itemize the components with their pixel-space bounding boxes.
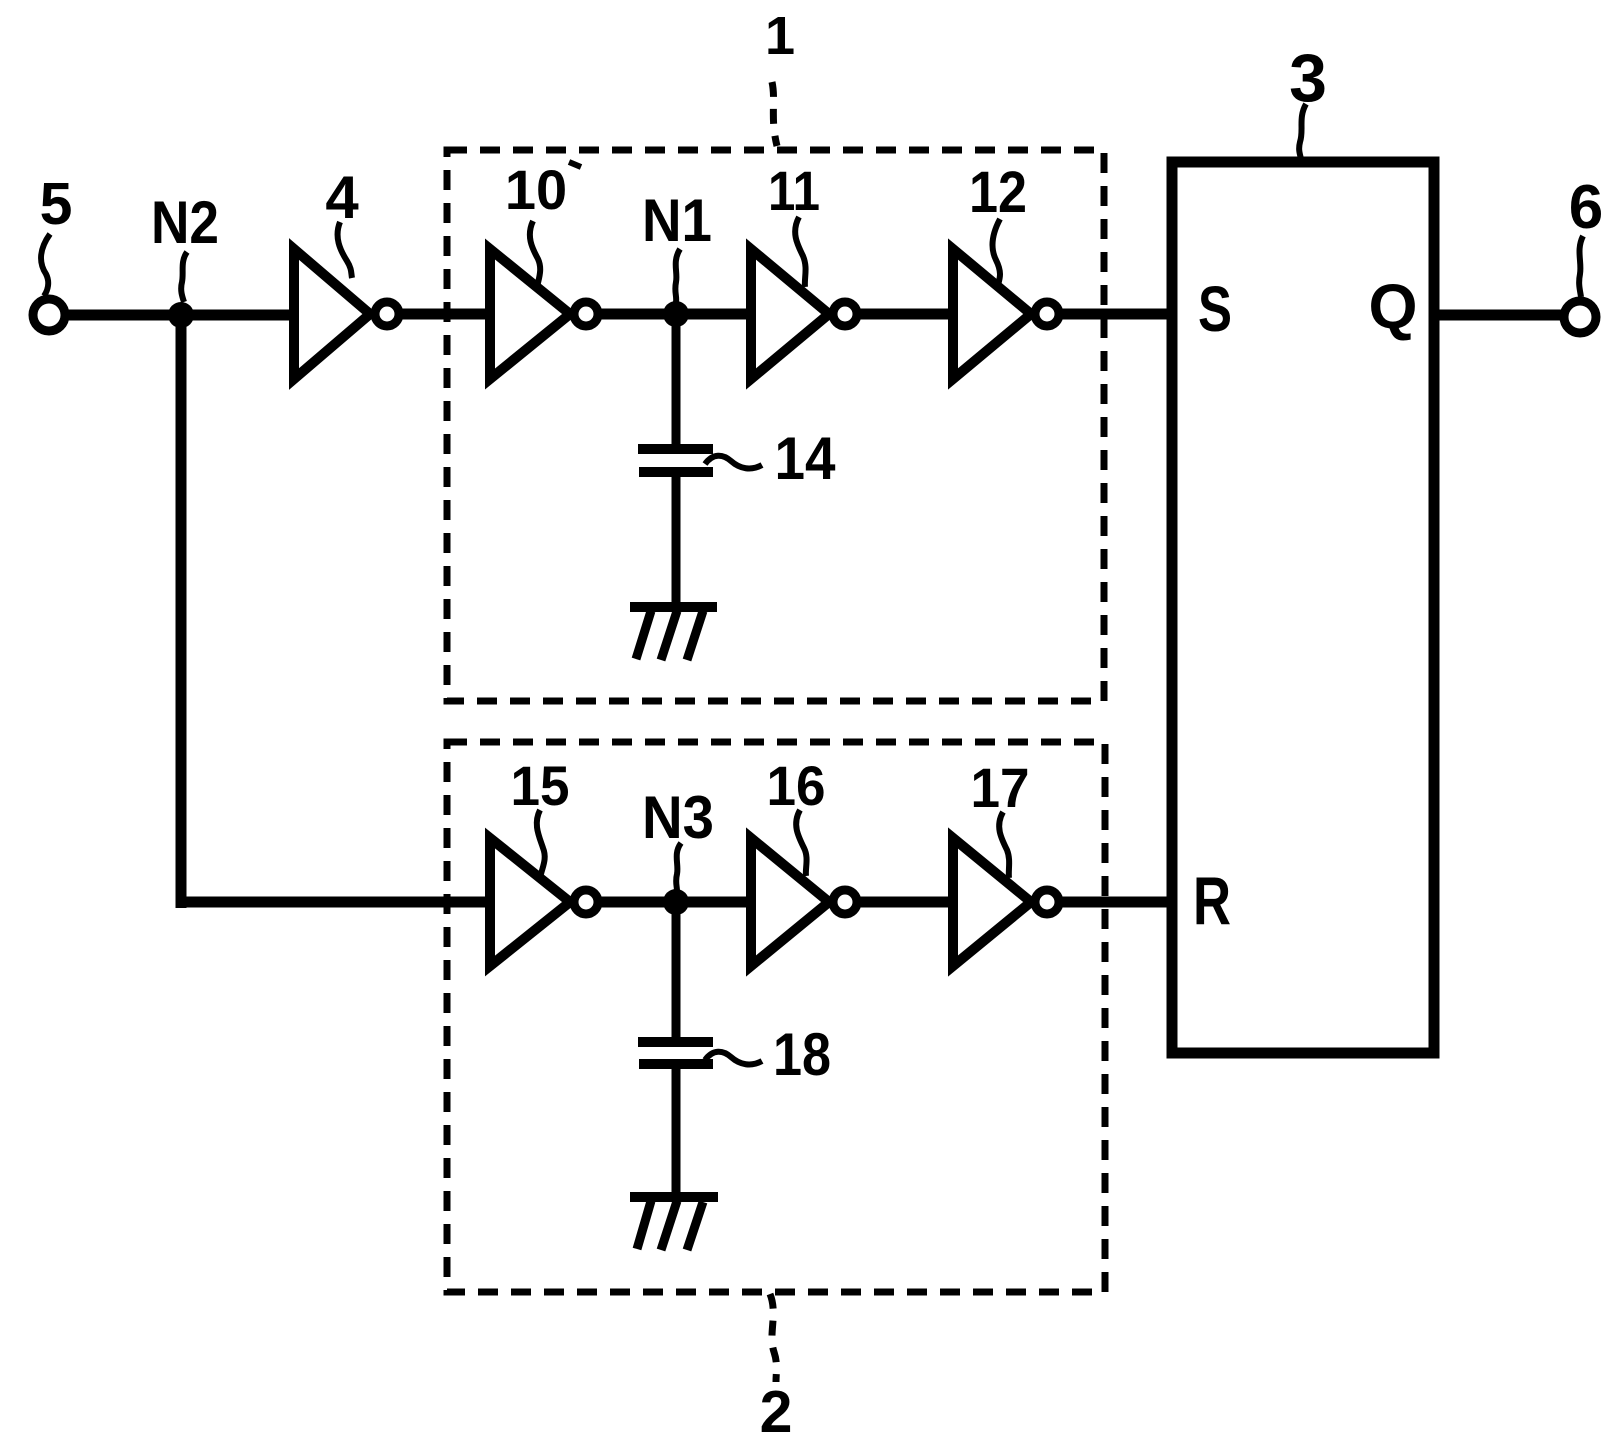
label 12 [969,160,1027,285]
svg-text:N3: N3 [642,784,714,851]
svg-text:14: 14 [775,425,837,492]
svg-text:4: 4 [325,164,359,231]
inverter 10 [490,249,598,379]
svg-text:N2: N2 [151,189,219,256]
svg-text:12: 12 [969,160,1027,225]
wire: inverter 15 output to inverter 16 input [598,897,753,908]
node N3 (junction) [663,889,689,915]
svg-text:2: 2 [760,1379,793,1445]
label 14 [705,425,836,492]
svg-text:S: S [1198,273,1232,345]
wire: inverter 11 output to inverter 12 input [857,309,955,320]
ground (bottom) [630,1197,718,1250]
label 5 [40,171,73,296]
inverter 4 [294,249,399,379]
wire: inverter 10 output to inverter 11 input [598,309,753,320]
inverter 12 [953,249,1059,379]
svg-text:11: 11 [768,159,820,222]
svg-text:10: 10 [505,158,567,221]
svg-text:Q: Q [1368,272,1417,342]
label 17 [971,756,1030,878]
wire: inverter 17 output to latch R input [1059,897,1173,908]
wire: inverter 16 output to inverter 17 input [857,897,955,908]
delay circuit block 1 (dashed box) [447,150,1104,701]
wire: inverter 4 output to inverter 10 input [399,309,492,320]
wire: node N1 down to capacitor 14 [672,314,681,445]
node N1 (junction) [663,301,689,327]
label 16 [767,754,826,876]
inverter 11 [751,249,857,379]
capacitor C18 [638,1042,713,1064]
svg-text:5: 5 [40,171,73,237]
wire: terminal 5 to inverter 4 input [65,310,296,321]
inverter 16 [751,838,857,966]
node N2 (junction) [168,302,194,328]
label 15 [511,754,570,874]
svg-text:3: 3 [1289,40,1327,116]
wire: capacitor 14 to ground [672,477,681,605]
output terminal 6 [1564,301,1596,333]
svg-text:1: 1 [765,6,795,66]
label N2 [151,189,219,302]
wire: capacitor 18 to ground [672,1069,681,1195]
wire: latch Q output to terminal 6 [1434,310,1562,321]
wire: bottom horizontal to inverter 15 input [181,897,492,908]
svg-text:R: R [1193,863,1231,939]
inverter 15 [490,838,598,966]
wire: node N2 down to reset path [176,315,187,908]
capacitor C14 [638,449,713,472]
svg-text:16: 16 [767,754,826,817]
wire: inverter 12 output to latch S input [1059,309,1173,320]
label 2 [760,1294,793,1445]
svg-text:N1: N1 [642,187,712,254]
label 3 [1289,40,1327,159]
delay circuit block 2 (dashed box) [447,742,1105,1292]
label N1 [642,187,712,302]
ground (top) [630,607,717,660]
input terminal 5 [33,299,65,331]
svg-text:18: 18 [773,1021,831,1088]
svg-text:17: 17 [971,756,1030,819]
label 18 [705,1021,831,1088]
svg-text:6: 6 [1569,173,1603,242]
label 1 [765,6,795,146]
inverter 17 [953,838,1059,966]
label 10 [505,158,581,288]
svg-text:15: 15 [511,754,570,817]
label 11 [768,159,820,287]
SR latch 3 (box) [1172,162,1434,1053]
label N3 [642,784,714,891]
label 6 [1569,173,1603,297]
wire: node N3 down to capacitor 18 [672,902,681,1038]
label 4 [325,164,359,278]
